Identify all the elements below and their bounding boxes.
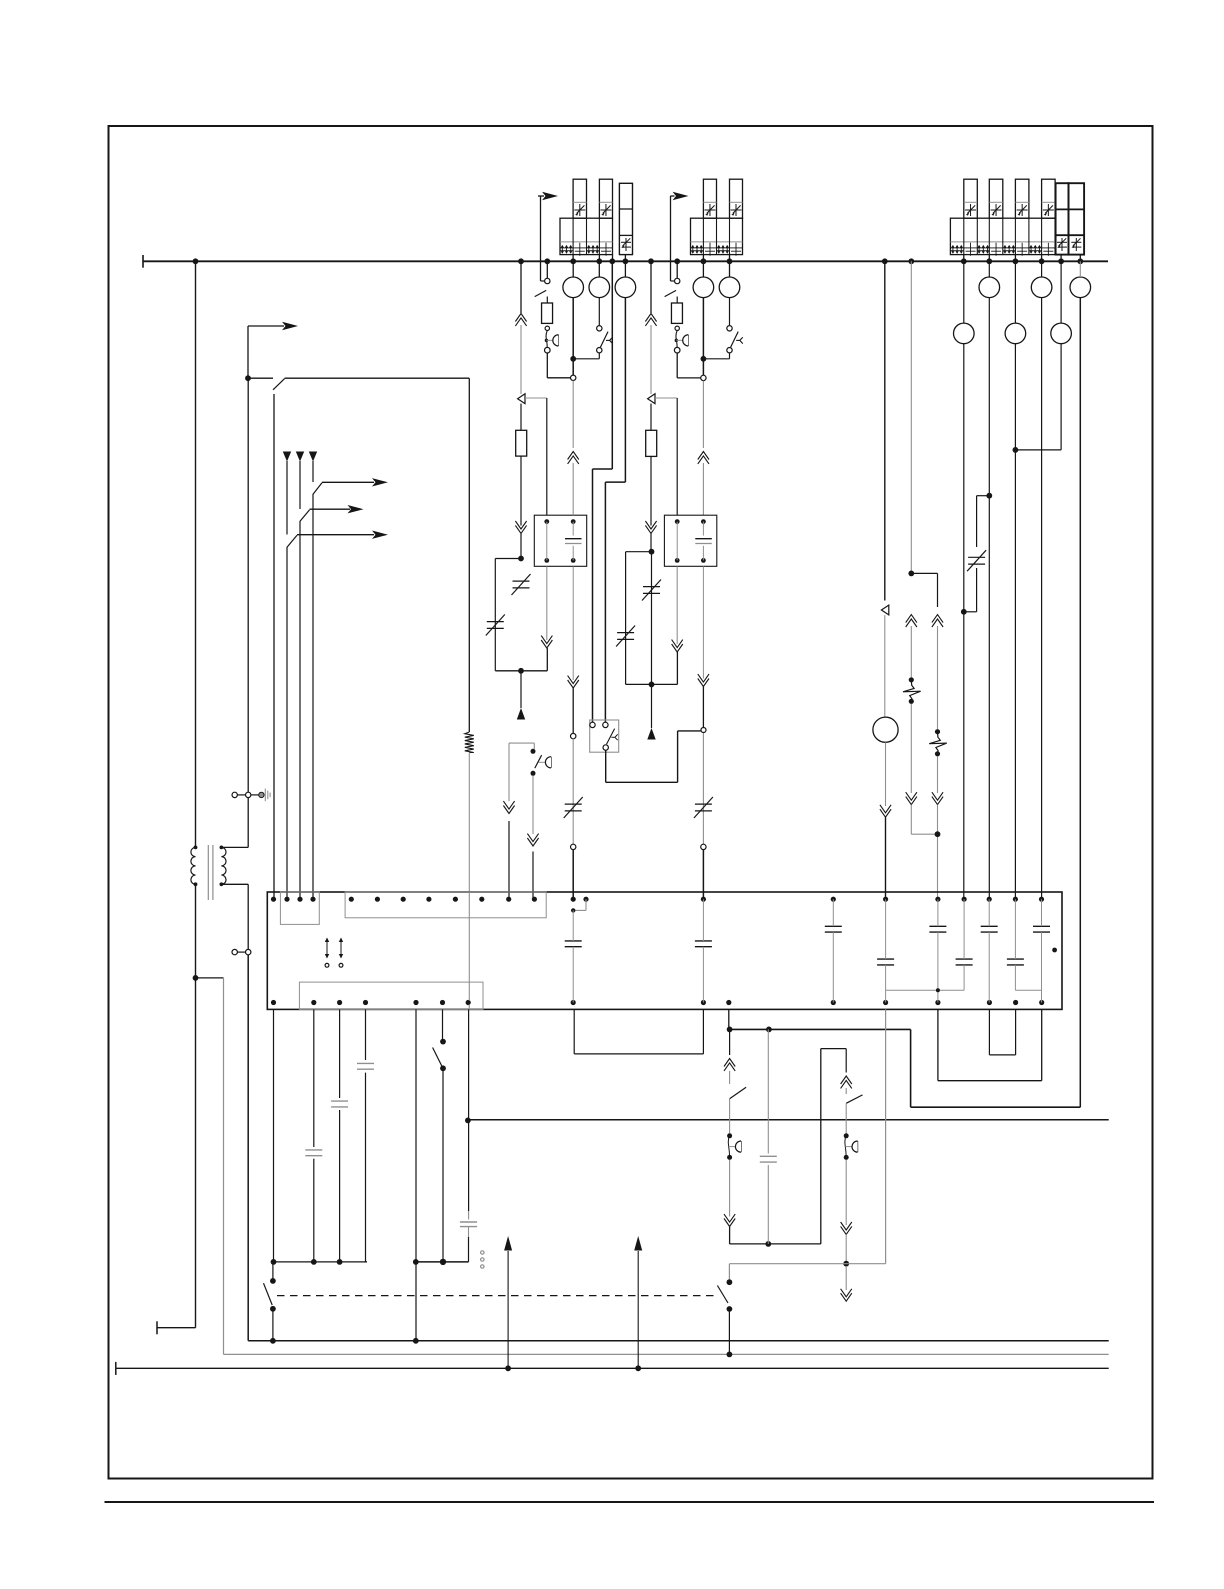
- wire node to X7: [911, 573, 937, 607]
- wire bus drop to S2: [546, 261, 548, 278]
- wire bus to HL12: [1060, 261, 1062, 323]
- lamp HL9: [954, 323, 975, 344]
- breaker CB5 double tower: [1056, 183, 1085, 254]
- wire R1 line to rail: [465, 892, 471, 1220]
- trimmer CT5: [616, 626, 635, 647]
- arrow to horn circuit E2: [671, 192, 689, 281]
- resistor R1: [465, 732, 474, 753]
- horn button SB2: [674, 326, 688, 353]
- fuse F5 tower: [964, 179, 978, 218]
- wire N1 bus line: [248, 955, 1108, 1341]
- connector pin arrow P5: [517, 671, 525, 720]
- trimmer CT7: [967, 550, 986, 571]
- wire module to rail t273: [273, 1009, 275, 1262]
- connector CN3: [571, 844, 576, 849]
- lamp HL5: [719, 277, 740, 298]
- lamp HL4: [693, 277, 714, 298]
- wire N3 bus line: [116, 1362, 1109, 1375]
- wire bus to HL2: [598, 261, 600, 277]
- wire SB2 to node A2: [677, 353, 701, 378]
- breaker block CB3: [691, 218, 744, 256]
- lamp HL8: [1070, 277, 1091, 298]
- connector CN5: [701, 728, 706, 733]
- connector X7 lead: [932, 615, 943, 730]
- varistor loop wires: [495, 556, 547, 674]
- connector CN2: [571, 733, 576, 738]
- wire bus P3 drop: [884, 261, 886, 600]
- relay module KA1 with capacitor: [534, 515, 586, 566]
- breaker FU1: [903, 677, 921, 704]
- wire bus to HL4: [702, 261, 704, 277]
- arrow to horn circuit E1: [538, 192, 558, 281]
- connector pin arrow P6: [647, 684, 655, 739]
- trimmer CT4: [642, 580, 661, 601]
- capacitor C9: [1033, 899, 1050, 1002]
- fuse F8 tower: [1042, 179, 1056, 218]
- wire CB5b to bus: [1079, 255, 1081, 262]
- connector arrow K3: [309, 452, 317, 462]
- module link wire a: [886, 988, 965, 992]
- switch SW1 tap on feeder: [245, 375, 469, 389]
- wire HL8 down: [1079, 298, 1081, 1108]
- wire module return W5: [729, 1009, 885, 1279]
- module jumper t586: [571, 899, 586, 912]
- connector arrow K2: [296, 452, 304, 462]
- wire F8 to bus: [1041, 255, 1043, 262]
- switch S11 master2: [717, 1279, 732, 1357]
- fuse F7 tower: [1015, 179, 1029, 218]
- wire T1 primary down: [193, 884, 199, 1327]
- bottom rule: [105, 1501, 1155, 1503]
- connector CN9: [232, 949, 251, 954]
- lamp HL2: [589, 277, 610, 298]
- fuse F6 tower: [989, 179, 1003, 218]
- wire S5 to HL4 drop: [703, 353, 729, 359]
- arrow to sheet 2: [248, 322, 298, 378]
- arrow from sheet A: [504, 1236, 512, 1371]
- wire SB4 connector to W4: [724, 1160, 821, 1247]
- wire F7 to bus: [1014, 255, 1016, 262]
- module inner block c: [299, 982, 483, 1009]
- connector CN1: [518, 394, 525, 404]
- wire CN8 up feeder: [247, 378, 249, 792]
- wire CN1 to relay KA1: [525, 398, 547, 515]
- wire CN4 to relay KA2: [655, 398, 677, 515]
- wire bus to HL9: [963, 261, 965, 323]
- trimmer CT2: [486, 615, 505, 636]
- wire P2 to interlock box: [593, 261, 613, 722]
- wire CN6 to module: [702, 850, 704, 900]
- capacitor C5: [929, 899, 946, 1002]
- fuse F3 tower: [703, 179, 716, 218]
- wire HL10 to module: [880, 742, 891, 899]
- wire node to P9 drop: [273, 394, 275, 899]
- fuse F2 tower: [599, 179, 612, 218]
- trimmer CT1: [512, 574, 531, 595]
- main bus P1 with junction dots: [143, 255, 1108, 268]
- wire CN5 down: [702, 733, 704, 844]
- wire mid bus line: [468, 1119, 1109, 1121]
- wire T1 top to CN8: [221, 798, 248, 848]
- wire R1 to module: [468, 753, 470, 893]
- wire HL11 to module: [1013, 344, 1019, 900]
- arrow from sheet B: [634, 1236, 642, 1371]
- wire F4 to bus: [729, 255, 731, 262]
- wire HL1 down: [570, 298, 576, 376]
- horn button SB5: [844, 1133, 858, 1160]
- wire A1 to relay KA1: [568, 381, 579, 516]
- terminal E1 stub: [157, 1321, 196, 1334]
- switch S4 contact: [665, 278, 680, 296]
- wire heavy elbow W3: [727, 1009, 1081, 1107]
- horn button SB1: [545, 326, 559, 353]
- fuse F4 tower: [730, 179, 743, 218]
- wire HL2 to S3: [598, 298, 600, 326]
- wire bus to HL11: [1014, 261, 1016, 323]
- wire F6 to bus: [988, 255, 990, 262]
- wire F3 to bus: [702, 255, 704, 262]
- wire bus P4 drop: [908, 261, 914, 576]
- wire bus to HL6: [988, 261, 990, 277]
- module link wire b: [1015, 989, 1041, 991]
- capacitor C4: [877, 899, 894, 1002]
- capacitor C10: [305, 1150, 322, 1156]
- lamp HL3: [615, 277, 636, 298]
- connector CN8 with chassis ground: [232, 789, 270, 802]
- module inner block b: [345, 892, 546, 918]
- module bottom terminals: [271, 1000, 1044, 1005]
- capacitor C3: [825, 899, 842, 1002]
- wire HL9 to module: [961, 344, 967, 900]
- wire K2 with takeoff arrow: [300, 461, 364, 899]
- varistor loop 2 wires: [626, 549, 678, 688]
- breaker block CB4: [950, 218, 1055, 256]
- module top terminals: [271, 897, 1044, 902]
- resistor R5: [646, 430, 657, 456]
- wire shunt branch: [964, 496, 990, 612]
- switch S10 chain: [841, 1076, 863, 1133]
- interlock switch S6 box: [590, 720, 619, 752]
- wire bus drop to S4: [676, 261, 678, 278]
- capacitor C7: [981, 899, 998, 1002]
- switch S2 contact: [535, 278, 550, 296]
- trimmer CT3: [564, 797, 583, 818]
- connector X8 lead: [906, 615, 917, 678]
- switch S9 chain: [724, 1029, 746, 1133]
- wire KA1 to connector X2a: [541, 566, 552, 671]
- wire CB2 to bus: [624, 255, 626, 262]
- lamp HL6: [979, 277, 1000, 298]
- wire A2 to relay KA2: [698, 381, 709, 516]
- lamp HL11: [1005, 323, 1026, 344]
- relay module KA2 with capacitor: [664, 515, 716, 566]
- module inner block a: [280, 892, 319, 924]
- capacitor C13: [460, 1222, 477, 1262]
- wire module to rail t339: [339, 1009, 341, 1262]
- wire CN7 to lamp HL10: [884, 615, 886, 717]
- capacitor C14: [760, 1156, 777, 1162]
- breaker CB2 tower: [619, 183, 632, 254]
- breaker block CB1: [560, 218, 613, 256]
- switch S3 with trip fork: [597, 326, 613, 353]
- mechanical link dashed: [277, 1295, 717, 1297]
- wire bus to HL8: [1079, 261, 1081, 277]
- wire SB1 to node A1: [547, 353, 570, 378]
- lamp HL10 large: [873, 717, 898, 742]
- wire FU1 to node B1: [906, 704, 938, 834]
- wire S3 to HL1 drop: [573, 353, 599, 359]
- wire module to rail t416: [413, 1009, 419, 1343]
- wire KA1 to connector X2b: [568, 566, 579, 733]
- module adjust arrows: [325, 938, 343, 968]
- wire FU2 to module: [932, 756, 943, 899]
- connector CN4: [648, 394, 655, 404]
- trimmer CT6: [694, 797, 713, 818]
- wire CN1 down: [520, 404, 522, 431]
- connector CN6: [701, 844, 706, 849]
- wire HL7 to module: [1041, 298, 1043, 900]
- control module A1 box: [267, 892, 1062, 1009]
- wire T1 bottom to CN9: [221, 884, 248, 949]
- horn plug leads W1: [503, 743, 534, 813]
- wire CN4 down: [650, 404, 652, 431]
- wire module to rail t365: [365, 1009, 367, 1262]
- lamp HL7: [1031, 277, 1052, 298]
- continuation dots: [481, 1251, 484, 1268]
- horn button SB4: [727, 1133, 741, 1160]
- wire K1 with takeoff arrow: [287, 461, 388, 899]
- switch S5 with trip fork: [727, 326, 743, 353]
- wire bus drop X1 connector: [515, 261, 526, 394]
- wire KA2 to connector X4a: [672, 566, 683, 684]
- wire HL12 joins HL11: [1015, 344, 1061, 450]
- wire R5 to varistor loop 2: [645, 456, 656, 551]
- switch S7 master: [264, 1262, 276, 1344]
- node A1 connector: [571, 375, 576, 380]
- resistor R4: [671, 303, 682, 323]
- resistor R2: [542, 303, 553, 323]
- connector arrow K1: [283, 452, 291, 462]
- wire SB3 connector: [527, 776, 538, 846]
- wire CB5a to bus: [1060, 255, 1062, 262]
- capacitor C6: [956, 899, 973, 990]
- wire F5 to bus: [963, 255, 965, 262]
- transformer T1: [191, 845, 226, 900]
- wire bus to transformer T1: [195, 261, 197, 847]
- lamp HL1: [563, 277, 584, 298]
- wire bus to HL5: [729, 261, 731, 277]
- lamp HL12: [1051, 323, 1072, 344]
- wire module to rail t313: [313, 1009, 315, 1262]
- wire S6 to CN5: [606, 731, 701, 782]
- wire X5 to module: [508, 821, 510, 899]
- wire bus to HL1: [572, 261, 574, 277]
- wire N2 bus line: [196, 978, 1109, 1355]
- wire CB1 to bus: [612, 255, 614, 262]
- wire feeder down right: [468, 378, 470, 732]
- capacitor C8: [1007, 899, 1024, 990]
- wire F1 to bus: [572, 255, 574, 262]
- wire F2 to bus: [598, 255, 600, 262]
- rail wire RL1: [271, 1259, 367, 1265]
- wire KA2 to connector X4b: [698, 566, 709, 727]
- wire HL4 down: [701, 298, 707, 376]
- capacitor C14 chain: [767, 1029, 769, 1244]
- rail wire RL2: [416, 1259, 469, 1265]
- capacitor C12: [357, 1063, 374, 1069]
- node A2 connector: [701, 375, 706, 380]
- wire CN2 down: [572, 739, 574, 845]
- capacitor C2: [695, 899, 712, 1002]
- wire S4 to R4: [676, 297, 678, 304]
- wire R3 to varistor loop: [515, 456, 526, 558]
- wire W4 up and over: [821, 1049, 846, 1244]
- wire CN3 to module: [572, 850, 574, 900]
- capacitor C1: [565, 910, 582, 1002]
- wire X6 to module: [532, 852, 534, 900]
- wire bus to HL3: [624, 261, 626, 277]
- wire SB5 connectors: [841, 1160, 852, 1301]
- wire bus drop X3 connector: [645, 261, 656, 394]
- border frame: [109, 126, 1153, 1479]
- switch S8 chain: [433, 1009, 446, 1262]
- wire HL6 to module: [986, 298, 992, 900]
- connector CN7: [881, 605, 888, 615]
- module test point: [1052, 948, 1057, 953]
- capacitor C11: [331, 1101, 348, 1107]
- wire S2 to R2: [546, 297, 548, 304]
- wire bus to HL7: [1041, 261, 1043, 277]
- jumper wire W6: [938, 1009, 1042, 1080]
- wire HL5 to S5: [729, 298, 731, 326]
- wire K3 with takeoff arrow: [313, 461, 388, 899]
- jumper wire W2: [574, 1009, 703, 1054]
- resistor R3: [516, 430, 527, 456]
- breaker FU2: [929, 729, 947, 756]
- wire HL3 to interlock box: [605, 298, 625, 723]
- jumper wire W7: [989, 1009, 1015, 1055]
- horn button SB3: [531, 749, 552, 776]
- fuse F1 tower: [573, 179, 586, 218]
